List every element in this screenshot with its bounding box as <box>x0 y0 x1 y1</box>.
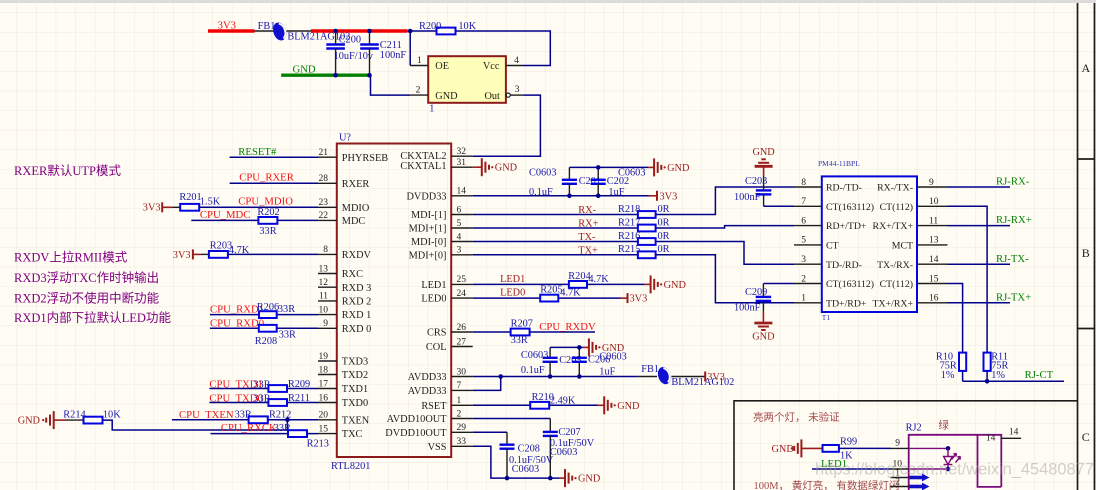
RJ2 pin 2 <box>891 486 909 488</box>
svg-text:7: 7 <box>801 197 806 207</box>
resistor R99 1K <box>801 447 822 449</box>
svg-text:2: 2 <box>416 86 421 96</box>
svg-text:16: 16 <box>929 294 939 304</box>
svg-text:33R: 33R <box>511 335 528 346</box>
wire GND thick green <box>281 73 370 76</box>
net label RJ-TX- <box>948 263 1011 265</box>
svg-text:4: 4 <box>514 56 519 66</box>
svg-text:C0603: C0603 <box>512 464 539 475</box>
junction R11 bottom <box>985 379 990 384</box>
svg-text:COL: COL <box>426 342 447 353</box>
svg-text:GND: GND <box>578 474 601 485</box>
svg-text:RXD 0: RXD 0 <box>342 324 371 335</box>
svg-text:R205: R205 <box>540 285 562 296</box>
power port 3V3 LED0 <box>621 297 628 299</box>
oscillator U osc box <box>428 56 506 103</box>
U? pin 2 AVDD10OUT <box>451 418 473 420</box>
U? pin 29 DVDD10OUT <box>451 431 473 433</box>
svg-text:CRS: CRS <box>427 328 447 339</box>
svg-text:R204: R204 <box>568 271 590 282</box>
resistor R216 0R <box>638 238 656 245</box>
power port GND LED1 <box>645 283 651 285</box>
svg-text:GND: GND <box>752 332 775 343</box>
svg-text:10: 10 <box>929 197 939 207</box>
svg-text:33R: 33R <box>279 329 296 340</box>
svg-text:1.5K: 1.5K <box>200 197 221 208</box>
U? pin 23 MDIO <box>318 206 337 208</box>
wire Out to CKXTAL2 <box>473 95 541 156</box>
capacitor C206 1uF <box>578 347 580 357</box>
U? pin 31 CKXTAL1 <box>451 166 473 168</box>
svg-text:18: 18 <box>319 365 329 375</box>
svg-text:PM44-11BPL: PM44-11BPL <box>818 159 860 168</box>
svg-text:CKXTAL2: CKXTAL2 <box>400 151 446 162</box>
svg-text:CT(163112): CT(163112) <box>826 202 874 213</box>
RJ2 pin 14 <box>1001 437 1021 439</box>
svg-text:RXER默认UTP模式: RXER默认UTP模式 <box>14 163 121 178</box>
svg-text:3V3: 3V3 <box>173 250 191 261</box>
svg-text:RJ-TX+: RJ-TX+ <box>996 291 1031 303</box>
svg-text:C200: C200 <box>339 35 361 46</box>
svg-text:10uF/10v: 10uF/10v <box>334 51 374 62</box>
svg-text:PHYRSEB: PHYRSEB <box>342 153 388 164</box>
U? pin 21 PHYRSEB <box>318 156 337 158</box>
wire MDI TX+ left <box>473 254 638 256</box>
sheet border right <box>1077 3 1079 490</box>
svg-text:C0603: C0603 <box>521 350 548 361</box>
U? pin 15 TXC <box>318 433 337 435</box>
svg-text:MDI+[0]: MDI+[0] <box>409 250 447 261</box>
resistor R202 33R <box>258 217 277 224</box>
junction <box>408 29 413 34</box>
svg-text:8: 8 <box>323 245 328 255</box>
svg-text:RJ-CT: RJ-CT <box>1025 369 1054 381</box>
svg-text:0R: 0R <box>658 217 670 228</box>
capacitor C208 0.1uF/50V <box>506 432 508 444</box>
svg-text:14: 14 <box>457 187 467 197</box>
junction C200 top <box>333 29 338 34</box>
svg-text:10K: 10K <box>103 409 121 420</box>
svg-text:MDI-[0]: MDI-[0] <box>411 237 446 248</box>
junction C211 top <box>367 29 372 34</box>
wire MDI RX+ left <box>473 227 638 229</box>
wire RX- to T1 pin8 <box>656 187 794 215</box>
svg-text:R206: R206 <box>257 302 279 313</box>
svg-text:R218: R218 <box>618 204 640 215</box>
svg-text:MDIO: MDIO <box>342 203 370 214</box>
capacitor C205 0.1uF <box>549 347 551 357</box>
U? pin 1 RSET <box>451 404 473 406</box>
svg-text:28: 28 <box>319 174 329 184</box>
junction C202 bottom <box>596 194 601 199</box>
svg-text:20: 20 <box>319 411 329 421</box>
svg-text:RX-/TX-: RX-/TX- <box>877 183 913 194</box>
resistor R213 33R <box>288 430 307 437</box>
U? pin 8 RXDV <box>318 253 337 255</box>
svg-text:CT(112): CT(112) <box>880 279 913 290</box>
svg-text:RXDV上拉RMII模式: RXDV上拉RMII模式 <box>14 250 128 265</box>
svg-text:C209: C209 <box>745 287 767 298</box>
wire MDI TX- left <box>473 241 638 243</box>
svg-text:27: 27 <box>457 337 467 347</box>
svg-text:RJ-RX+: RJ-RX+ <box>996 214 1032 226</box>
svg-text:RXD1内部下拉默认LED功能: RXD1内部下拉默认LED功能 <box>14 310 171 325</box>
svg-text:RD+/TD+: RD+/TD+ <box>826 221 867 232</box>
wire RXD0 <box>210 327 318 329</box>
svg-text:GND: GND <box>664 280 687 291</box>
resistor R207 33R <box>511 329 530 336</box>
junction C201 bottom <box>567 194 572 199</box>
svg-text:CT(112): CT(112) <box>880 202 913 213</box>
svg-text:1: 1 <box>801 294 806 304</box>
svg-text:C0603: C0603 <box>529 167 556 178</box>
junction C206 bottom <box>577 374 582 379</box>
svg-text:R211: R211 <box>288 393 310 404</box>
svg-text:GND: GND <box>617 401 640 412</box>
power port 3V3 DVDD33 <box>656 191 658 201</box>
svg-text:0R: 0R <box>658 244 670 255</box>
svg-text:MDI-[1]: MDI-[1] <box>411 210 446 221</box>
svg-text:R216: R216 <box>618 231 640 242</box>
svg-text:CPU_RXDV: CPU_RXDV <box>539 321 596 333</box>
wire MDIO <box>199 206 318 208</box>
U? pin 27 COL <box>451 346 473 348</box>
ferrite bead FB1 AVDD <box>638 376 657 378</box>
svg-text:C0603: C0603 <box>550 447 577 458</box>
wire LED0 <box>473 297 621 299</box>
T1 pin 13 MCT <box>917 244 948 246</box>
svg-text:LED1: LED1 <box>500 274 525 285</box>
resistor R203 4.7K <box>201 253 209 255</box>
capacitor C211 <box>369 31 371 45</box>
U? pin 24 LED0 <box>451 297 473 299</box>
svg-text:29: 29 <box>457 423 467 433</box>
svg-text:https://blog.csdn.net/weixin_4: https://blog.csdn.net/weixin_45480877 <box>815 461 1094 479</box>
svg-text:R209: R209 <box>288 379 310 390</box>
svg-text:21: 21 <box>319 148 329 158</box>
svg-text:9: 9 <box>929 178 934 188</box>
svg-text:33R: 33R <box>259 226 276 237</box>
junction C207 bottom <box>548 476 553 481</box>
wire CPU_RXER <box>230 182 318 184</box>
svg-text:CPU_RXCK: CPU_RXCK <box>221 422 277 434</box>
capacitor C200 <box>335 31 337 45</box>
svg-text:31: 31 <box>457 158 467 168</box>
svg-text:MDI+[1]: MDI+[1] <box>409 224 447 235</box>
resistor R204 4.7K <box>569 281 587 288</box>
wire RXD1 <box>210 314 318 316</box>
T1 pin 7 CT(163112) <box>794 205 822 207</box>
svg-text:R202: R202 <box>257 207 279 218</box>
svg-text:1: 1 <box>429 104 434 115</box>
wire 3V3 thick red rail <box>311 29 408 32</box>
svg-text:RSET: RSET <box>421 401 447 412</box>
svg-text:GND: GND <box>18 416 41 427</box>
svg-text:T1: T1 <box>822 313 831 322</box>
net label RJ-RX- <box>948 186 1011 188</box>
svg-text:15: 15 <box>929 274 939 284</box>
U? pin 28 RXER <box>318 182 337 184</box>
svg-text:TD-/RD-: TD-/RD- <box>826 260 862 271</box>
svg-text:1: 1 <box>457 396 462 406</box>
svg-text:GND: GND <box>495 163 518 174</box>
power port GND C209 <box>762 312 764 323</box>
U? pin 30 AVDD33 <box>451 376 473 378</box>
U? pin 3 MDI+[0] <box>451 254 473 256</box>
wire R99 to RJ2 pin9 <box>839 447 891 449</box>
svg-text:100nF: 100nF <box>734 303 761 314</box>
svg-text:13: 13 <box>319 264 329 274</box>
svg-text:9: 9 <box>895 439 900 449</box>
svg-text:RXD2浮动不使用中断功能: RXD2浮动不使用中断功能 <box>14 291 160 306</box>
svg-text:19: 19 <box>319 352 329 362</box>
wire CT112 to R10 <box>948 284 963 353</box>
svg-text:R207: R207 <box>511 318 533 329</box>
U? pin 18 TXD2 <box>318 374 337 376</box>
svg-text:C202: C202 <box>607 176 629 187</box>
resistor R11 75R <box>984 353 991 371</box>
power port GND caps <box>648 166 654 168</box>
U? pin 4 MDI-[0] <box>451 241 473 243</box>
svg-text:LED0: LED0 <box>421 294 446 305</box>
T1 pin 3 TD-/RD- <box>794 263 822 265</box>
T1 pin 9 RX-/TX- <box>917 186 948 188</box>
svg-text:0R: 0R <box>658 231 670 242</box>
svg-text:RXD 2: RXD 2 <box>342 297 371 308</box>
resistor R206 33R <box>259 311 277 318</box>
wire MDC <box>191 219 318 221</box>
T1 pin 1 TD+/RD+ <box>794 302 822 304</box>
svg-text:TXD1: TXD1 <box>342 384 368 395</box>
junction TXEN pulldown <box>285 418 290 423</box>
T1 pin 15 CT(112) <box>917 283 948 285</box>
wire RJ-CT rail <box>963 380 1064 382</box>
svg-text:Out: Out <box>484 91 500 102</box>
wire AVDD33 rail <box>473 376 638 378</box>
U? pin 5 MDI+[1] <box>451 227 473 229</box>
svg-text:25: 25 <box>457 275 467 285</box>
capacitor C209 100nF <box>763 283 794 285</box>
svg-text:100nF: 100nF <box>734 192 761 203</box>
wire rail to R200 <box>408 30 437 32</box>
wire DVDD33 to 3V3 <box>473 195 657 197</box>
svg-text:RXC: RXC <box>342 269 363 280</box>
U? pin 32 CKXTAL2 <box>451 155 473 157</box>
svg-text:6: 6 <box>801 216 806 226</box>
U? pin 10 RXD 1 <box>318 314 337 316</box>
svg-text:C208: C208 <box>518 443 540 454</box>
svg-text:2: 2 <box>895 477 900 487</box>
svg-text:GND: GND <box>772 444 795 455</box>
svg-text:AVDD10OUT: AVDD10OUT <box>387 414 448 425</box>
U? pin 14 DVDD33 <box>451 195 473 197</box>
svg-text:16: 16 <box>319 393 329 403</box>
U? pin 7 AVDD33 <box>451 389 473 391</box>
U? pin 19 TXD3 <box>318 360 337 362</box>
svg-text:R215: R215 <box>618 244 640 255</box>
wire AVDD33 pin7 link <box>473 377 501 391</box>
svg-text:Vcc: Vcc <box>483 61 500 72</box>
svg-text:RD-/TD-: RD-/TD- <box>826 183 862 194</box>
svg-text:3V3: 3V3 <box>660 192 678 203</box>
svg-text:14: 14 <box>986 433 996 443</box>
svg-text:GND: GND <box>752 147 775 158</box>
U? pin 20 TXEN <box>318 419 337 421</box>
LED arrows <box>952 454 957 460</box>
wire RX+ to T1 pin6 <box>656 226 794 228</box>
RJ2 pin 1 <box>891 477 909 479</box>
U? pin 17 TXD1 <box>318 388 337 390</box>
svg-text:CT(163112): CT(163112) <box>826 279 874 290</box>
svg-text:R99: R99 <box>840 437 857 448</box>
svg-text:TX+/RX+: TX+/RX+ <box>873 298 914 309</box>
svg-text:22: 22 <box>319 211 329 221</box>
osc pin 2 GND <box>410 94 428 96</box>
osc pin 1 OE <box>410 65 428 67</box>
svg-text:C207: C207 <box>558 427 580 438</box>
svg-text:RJ2: RJ2 <box>906 423 922 434</box>
svg-text:AVDD33: AVDD33 <box>408 372 447 383</box>
svg-text:GND: GND <box>435 91 458 102</box>
svg-text:2: 2 <box>801 274 806 284</box>
svg-text:FB1: FB1 <box>641 364 659 375</box>
capacitor C201 0.1uF <box>568 167 570 179</box>
svg-text:3: 3 <box>515 85 520 95</box>
power port 3V3 AVDD <box>704 372 706 382</box>
osc pin 4 Vcc <box>506 65 524 67</box>
svg-text:GND: GND <box>602 343 625 354</box>
U? pin 25 LED1 <box>451 283 473 285</box>
svg-text:0.1uF: 0.1uF <box>529 187 553 198</box>
resistor R211 33R <box>268 399 287 406</box>
svg-text:绿: 绿 <box>938 419 949 432</box>
svg-text:AVDD33: AVDD33 <box>408 386 447 397</box>
svg-text:R217: R217 <box>618 217 640 228</box>
svg-text:A: A <box>1081 61 1090 75</box>
svg-text:B: B <box>1082 246 1090 260</box>
svg-text:DVDD10OUT: DVDD10OUT <box>385 428 447 439</box>
wire VSS to GND rail <box>473 446 559 478</box>
svg-text:33: 33 <box>457 437 467 447</box>
capacitor C207 0.1uF/50V <box>549 419 551 432</box>
wire FB1 to 3V3 port <box>671 376 705 378</box>
svg-text:33R: 33R <box>278 304 295 315</box>
svg-text:14: 14 <box>1009 428 1019 438</box>
svg-text:RJ-RX-: RJ-RX- <box>996 176 1030 188</box>
U? pin 6 MDI-[1] <box>451 214 473 216</box>
T1 pin 5 CT <box>794 244 822 246</box>
resistor R209 33R <box>268 385 287 392</box>
svg-text:23: 23 <box>319 198 329 208</box>
resistor R212 33R <box>249 416 268 423</box>
svg-text:32: 32 <box>457 147 467 157</box>
wire GND to oscillator pin2 <box>371 75 411 95</box>
svg-text:8: 8 <box>801 178 806 188</box>
zone divider B/C <box>1077 328 1095 330</box>
svg-text:0R: 0R <box>658 204 670 215</box>
wire TXEN <box>172 419 318 421</box>
wire MDI RX- left <box>473 214 638 216</box>
wire CRS <box>473 331 595 333</box>
resistor R214 10K <box>54 419 65 421</box>
wire TX+ to T1 pin1 <box>656 255 794 303</box>
top gray strip <box>0 0 1096 3</box>
svg-text:3: 3 <box>457 246 462 256</box>
T1 pin 11 RX+/TX+ <box>917 225 948 227</box>
wire FB1 to rail lead <box>286 30 311 32</box>
wire TXC <box>211 433 319 435</box>
T1 pin 2 CT(163112) <box>794 283 822 285</box>
wire RESET# <box>230 156 318 158</box>
svg-text:LED0: LED0 <box>500 287 525 298</box>
svg-text:1uF: 1uF <box>608 187 624 198</box>
svg-text:100M， 黄灯亮， 有数据绿灯闪: 100M， 黄灯亮， 有数据绿灯闪 <box>754 479 900 490</box>
wire LED1 to RJ2 pin10 <box>812 468 891 470</box>
resistor R217 0R <box>638 225 656 232</box>
svg-text:1: 1 <box>417 56 422 66</box>
svg-text:4.7K: 4.7K <box>588 274 609 285</box>
svg-text:RTL8201: RTL8201 <box>331 461 370 472</box>
svg-text:TXD2: TXD2 <box>342 370 368 381</box>
wire C203 to T1 pin7 <box>764 205 794 207</box>
junction AVDD33 pin7 <box>498 374 503 379</box>
resistor R10 75R <box>959 353 966 371</box>
wire CT112 to R11 <box>948 206 988 352</box>
junction C200 bottom <box>333 73 338 78</box>
resistor R208 33R <box>259 325 277 332</box>
svg-text:TXC: TXC <box>342 429 363 440</box>
power port GND VSS <box>559 477 565 479</box>
svg-text:9: 9 <box>323 319 328 329</box>
U? pin 22 MDC <box>318 219 337 221</box>
svg-text:RXD 3: RXD 3 <box>342 283 371 294</box>
svg-text:10: 10 <box>319 305 329 315</box>
svg-text:24: 24 <box>457 289 467 299</box>
U? pin 16 TXD0 <box>318 402 337 404</box>
resistor R215 0R <box>638 251 656 258</box>
wire RSET <box>473 404 531 406</box>
svg-text:DVDD33: DVDD33 <box>406 191 446 202</box>
junction C202 top <box>596 165 601 170</box>
svg-text:R213: R213 <box>307 438 329 449</box>
svg-text:7: 7 <box>457 381 462 391</box>
T1 pin 8 RD-/TD- <box>794 186 822 188</box>
resistor R201 1.5K <box>173 206 181 208</box>
svg-text:4: 4 <box>457 232 462 242</box>
svg-text:1%: 1% <box>991 370 1005 381</box>
svg-text:0.1uF: 0.1uF <box>521 365 545 376</box>
svg-text:RESET#: RESET# <box>238 146 277 158</box>
U? pin 9 RXD 0 <box>318 327 337 329</box>
svg-text:14: 14 <box>929 255 939 265</box>
svg-text:15: 15 <box>319 424 329 434</box>
zone divider A/B <box>1077 158 1095 160</box>
svg-text:OE: OE <box>435 61 449 72</box>
svg-text:VSS: VSS <box>428 442 447 453</box>
wire RSET to GND <box>549 404 598 406</box>
svg-text:U?: U? <box>339 133 351 144</box>
bus arrow pin1 <box>909 476 923 480</box>
section box <box>734 401 1077 490</box>
resistor R210 2.49K <box>530 402 549 409</box>
svg-text:1%: 1% <box>941 370 955 381</box>
wire FB1 lead <box>255 30 274 32</box>
U? pin 26 CRS <box>451 331 473 333</box>
junction C211 bottom <box>367 73 372 78</box>
wire cap GND rail <box>569 166 648 168</box>
svg-text:3V3: 3V3 <box>143 203 161 214</box>
wire RJ2 pin10 inside <box>909 468 948 470</box>
